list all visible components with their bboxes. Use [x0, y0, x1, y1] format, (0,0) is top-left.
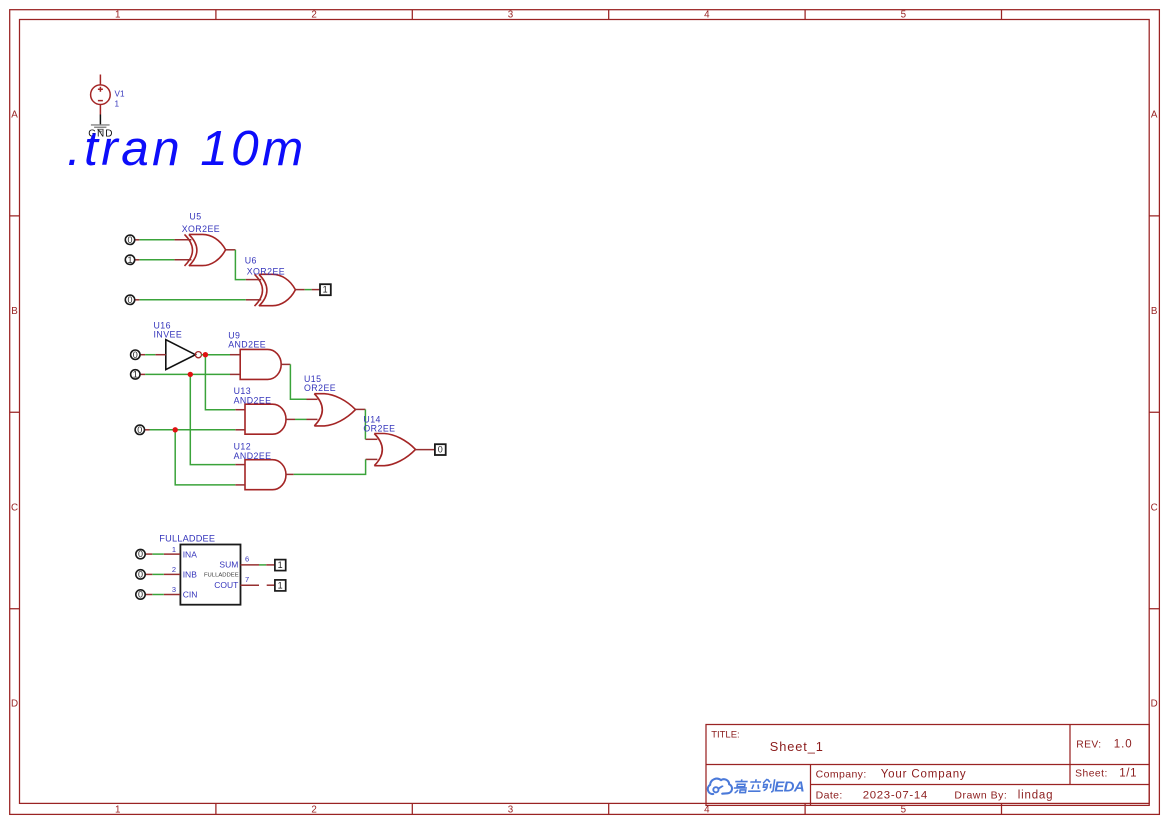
pin 1 stub: [164, 553, 180, 555]
svg-text:C: C: [11, 502, 18, 513]
terminal T9 circle 0: [136, 590, 145, 599]
svg-text:3: 3: [508, 10, 514, 21]
svg-text:0: 0: [137, 425, 142, 435]
svg-text:V1: V1: [115, 89, 125, 98]
junction dot A: [203, 352, 208, 357]
svg-text:FULLADDEE: FULLADDEE: [204, 573, 239, 579]
JLC EDA logo: [708, 779, 804, 796]
terminal stub S4: [267, 584, 275, 586]
svg-text:INB: INB: [183, 570, 198, 580]
wire T2 to U5: [139, 259, 174, 261]
ground: [91, 124, 110, 132]
terminal stub T3: [134, 299, 139, 301]
svg-text:0: 0: [438, 445, 443, 455]
wire T5 to U9 in2: [145, 373, 230, 375]
svg-text:3: 3: [172, 585, 176, 594]
terminal stub T6: [144, 429, 149, 431]
svg-text:Drawn By:: Drawn By:: [954, 790, 1007, 802]
wire T8 to pin2: [152, 573, 164, 575]
pin stub U12 out: [286, 473, 294, 475]
svg-text:5: 5: [901, 804, 907, 815]
pin stub U15 in1: [307, 398, 318, 400]
svg-text:AND2EE: AND2EE: [234, 451, 272, 461]
logo text 嘉立创 (drawn strokes): [733, 779, 775, 793]
and gate U13: [245, 404, 286, 434]
junction dot B: [188, 372, 193, 377]
svg-text:1: 1: [278, 560, 283, 570]
pin stub U12 in2: [235, 484, 245, 486]
pin 7 stub: [241, 584, 260, 586]
svg-text:lindag: lindag: [1018, 790, 1054, 802]
svg-text:U13: U13: [234, 386, 252, 396]
xor gate U6: [255, 274, 296, 306]
svg-text:Your Company: Your Company: [881, 768, 967, 780]
row ticks right: [1149, 216, 1159, 609]
row ticks left: [10, 216, 20, 609]
svg-text:0: 0: [127, 295, 132, 305]
pin stub U16 in: [155, 354, 166, 356]
voltage source V1: [88, 75, 125, 140]
wire node to U12 in2: [175, 430, 235, 485]
terminal T7 circle 0: [136, 549, 145, 558]
svg-text:REV:: REV:: [1076, 739, 1101, 750]
svg-text:TITLE:: TITLE:: [711, 729, 740, 740]
svg-text:1: 1: [115, 100, 120, 109]
terminal S3 square 1: [275, 560, 286, 571]
svg-text:U5: U5: [189, 211, 201, 221]
svg-text:1: 1: [172, 545, 176, 554]
wire node to U12 in1: [190, 374, 235, 464]
svg-text:2023-07-14: 2023-07-14: [863, 790, 928, 802]
svg-text:7: 7: [245, 575, 249, 584]
svg-text:4: 4: [704, 10, 710, 21]
svg-text:SUM: SUM: [219, 560, 238, 570]
pin stub U14 in2: [366, 458, 378, 460]
wire U9 out to U15 in1: [290, 364, 306, 399]
wire T7 to pin1: [152, 553, 164, 555]
svg-text:1/1: 1/1: [1119, 768, 1137, 780]
xor gate U5: [185, 234, 226, 266]
wire pin6 to S3: [259, 564, 266, 566]
pin stub U14 out: [416, 449, 435, 451]
terminal stub T5: [140, 373, 145, 375]
pin stub U12 in1: [235, 464, 245, 466]
logo cloud icon: [708, 779, 732, 794]
svg-text:.tran 10m: .tran 10m: [67, 121, 307, 176]
svg-text:Sheet:: Sheet:: [1075, 769, 1108, 780]
pin stub U14 in1: [365, 438, 377, 440]
terminal T6 circle 0: [135, 425, 144, 434]
terminal stub S1: [312, 289, 320, 291]
or gate U14: [374, 434, 415, 466]
junction dot C: [173, 427, 178, 432]
svg-text:A: A: [1151, 110, 1158, 121]
pin stub U13 in1: [235, 409, 245, 411]
terminal stub T7: [145, 553, 152, 555]
svg-text:Date:: Date:: [816, 790, 843, 802]
svg-text:1: 1: [115, 804, 120, 815]
pin stub U13 out: [286, 418, 295, 420]
pin stub U5 out: [226, 249, 236, 251]
pin stub U6 in1: [246, 279, 262, 281]
svg-text:FULLADDEE: FULLADDEE: [159, 534, 215, 544]
pin stub U15 in2: [307, 418, 318, 420]
svg-text:1: 1: [278, 580, 283, 590]
terminal T5 circle 1: [131, 370, 140, 379]
wire black to gnd: [99, 115, 101, 125]
wire T9 to pin3: [152, 594, 164, 596]
wire U6 out to S1: [305, 289, 312, 291]
svg-text:0: 0: [138, 570, 143, 580]
pin stub U6 out: [295, 289, 304, 291]
pin 3 stub: [164, 594, 180, 596]
wire U5 out to U6 in1: [235, 250, 245, 280]
svg-text:4: 4: [704, 804, 710, 815]
pin stub U9 out: [281, 363, 290, 365]
title block frame: [706, 725, 1149, 806]
svg-text:1.0: 1.0: [1114, 738, 1133, 750]
svg-text:XOR2EE: XOR2EE: [182, 224, 220, 234]
inverter bubble: [195, 352, 201, 358]
svg-text:AND2EE: AND2EE: [234, 396, 272, 406]
fulladder U-block FULLADDEE: [180, 545, 240, 605]
svg-text:EDA: EDA: [774, 779, 804, 796]
svg-text:5: 5: [901, 10, 907, 21]
wire U16 out to U9 in1: [201, 354, 230, 356]
pin stub U13 in2: [235, 429, 245, 431]
svg-text:0: 0: [127, 235, 132, 245]
pin stub U5 in2: [174, 259, 191, 261]
pin stub U15 out: [356, 408, 366, 410]
svg-text:1: 1: [115, 10, 120, 21]
svg-text:COUT: COUT: [214, 580, 238, 590]
wire U15 out to U14 in1: [364, 409, 366, 439]
svg-text:2: 2: [311, 10, 316, 21]
terminal T1 circle 0: [125, 235, 134, 244]
terminal T3 circle 0: [125, 295, 134, 304]
pin stub U5 in1: [174, 239, 191, 241]
svg-text:Sheet_1: Sheet_1: [770, 739, 824, 754]
svg-text:B: B: [11, 306, 18, 317]
svg-text:1: 1: [323, 285, 328, 295]
svg-text:INA: INA: [183, 549, 198, 559]
svg-text:B: B: [1151, 306, 1158, 317]
terminal S1 square 1: [320, 284, 331, 295]
svg-text:6: 6: [245, 555, 249, 564]
wire node to U13 in1: [205, 355, 235, 410]
svg-text:OR2EE: OR2EE: [304, 383, 336, 393]
terminal T2 circle 1: [125, 255, 134, 264]
svg-text:D: D: [11, 699, 18, 710]
svg-text:A: A: [11, 110, 18, 121]
svg-text:2: 2: [311, 804, 316, 815]
wire red below V1: [99, 105, 101, 115]
wire T3 to U6: [139, 299, 245, 301]
svg-text:U6: U6: [245, 256, 257, 266]
terminal stub T4: [140, 354, 145, 356]
svg-text:2: 2: [172, 565, 176, 574]
svg-text:OR2EE: OR2EE: [363, 424, 395, 434]
wire T4 to U16: [145, 354, 155, 356]
wire T6 to U13 in2: [150, 429, 236, 431]
pin 6 stub: [241, 564, 260, 566]
column ticks bottom: [216, 803, 1002, 814]
wire T1 to U5: [139, 239, 174, 241]
pin 2 stub: [164, 573, 180, 575]
terminal T8 circle 0: [136, 570, 145, 579]
pin stub U9 in1: [230, 354, 240, 356]
V1 body: [91, 85, 111, 105]
inverter U16: [166, 340, 196, 370]
svg-text:C: C: [1151, 502, 1158, 513]
title block text: [711, 729, 1137, 801]
terminal stub T8: [145, 573, 152, 575]
terminal stub S3: [266, 564, 275, 566]
svg-text:1: 1: [127, 255, 132, 265]
column ticks top: [216, 10, 1002, 20]
wire red top of V1: [99, 75, 101, 85]
and gate U9: [240, 349, 281, 379]
terminal T4 circle 0: [131, 350, 140, 359]
terminal stub T2: [134, 259, 139, 261]
terminal stub T9: [145, 594, 152, 596]
or gate U15: [314, 394, 355, 426]
wire U13 out to U15 in2: [295, 418, 307, 420]
svg-text:AND2EE: AND2EE: [228, 340, 266, 350]
svg-text:3: 3: [508, 804, 514, 815]
svg-text:0: 0: [138, 590, 143, 600]
svg-text:Company:: Company:: [816, 768, 867, 780]
svg-text:XOR2EE: XOR2EE: [247, 267, 285, 277]
terminal S4 square 1: [275, 580, 286, 591]
svg-text:0: 0: [138, 549, 143, 559]
wire U12 out to U14 in2: [294, 459, 366, 474]
svg-text:D: D: [1151, 699, 1158, 710]
svg-text:1: 1: [133, 370, 138, 380]
svg-text:INVEE: INVEE: [154, 330, 183, 340]
pin stub U9 in2: [230, 373, 240, 375]
pin stub U6 in2: [246, 299, 262, 301]
and gate U12: [245, 460, 286, 490]
terminal stub T1: [134, 239, 139, 241]
svg-text:CIN: CIN: [183, 590, 198, 600]
terminal S2 square 0: [435, 444, 446, 455]
svg-text:0: 0: [133, 350, 138, 360]
svg-text:U12: U12: [234, 441, 252, 451]
